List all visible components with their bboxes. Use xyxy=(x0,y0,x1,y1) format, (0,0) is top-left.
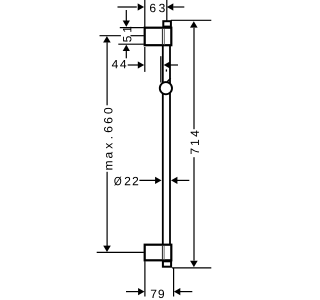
dim 79 left arrow xyxy=(138,288,144,295)
dim max660 line upper xyxy=(106,43,108,106)
wall bar bottom cap xyxy=(163,261,171,266)
dim max660 top reference line right part xyxy=(131,35,144,37)
dim 51 top tail xyxy=(125,10,127,21)
dim 44 right extension (slider edge) xyxy=(160,56,162,82)
dim 63 left tail xyxy=(118,6,137,8)
dim 79 left tail xyxy=(126,291,138,293)
wall bar top cap xyxy=(163,21,171,26)
dim diameter22 right arrow xyxy=(171,177,177,184)
dim 63 right extension line xyxy=(166,0,168,21)
label 714 xyxy=(191,131,199,154)
wall bar top bracket xyxy=(145,28,172,46)
dim diameter22 left arrow xyxy=(155,177,161,184)
dim max660 top arrow xyxy=(103,36,111,42)
dim diameter22 left tail xyxy=(139,179,155,181)
dim 79 right arrow xyxy=(174,288,180,295)
dim 63 left arrow xyxy=(138,3,144,10)
dim max660 top reference line left part xyxy=(100,35,121,37)
rod hidden line in top bracket (right) xyxy=(163,29,165,45)
dim 44 left tail xyxy=(128,64,138,66)
label 63 xyxy=(150,4,165,12)
dim 714 top arrow xyxy=(190,21,198,27)
dim 79 right extension line xyxy=(173,269,175,297)
rod hidden line in top bracket (left) xyxy=(161,29,163,45)
dim 714 line lower xyxy=(193,157,195,260)
rod right edge xyxy=(169,46,171,245)
dim max660 bottom reference line xyxy=(97,251,144,253)
rod hidden line in bottom bracket (left) xyxy=(161,246,163,260)
dim 714 bottom reference line xyxy=(172,267,211,269)
dim 714 top reference line xyxy=(171,19,212,21)
dim 51 bottom tail xyxy=(125,51,127,59)
dim 44 right arrow xyxy=(164,61,170,68)
label max660 xyxy=(104,108,112,170)
rod hidden line in bottom bracket (right) xyxy=(163,246,165,260)
dim max660 bottom arrow xyxy=(103,246,111,252)
wall bar bottom bracket xyxy=(145,245,172,261)
dim 79 right tail xyxy=(180,291,192,293)
dim 63 right arrow xyxy=(167,3,173,10)
dim diameter22 right tail xyxy=(177,179,189,181)
label 44 xyxy=(112,60,126,68)
slider notch xyxy=(167,78,170,82)
dim 51 top extension line xyxy=(120,27,144,29)
rod left edge xyxy=(162,46,164,245)
dim max660 line lower xyxy=(106,172,108,246)
dim 51 top arrow xyxy=(123,21,130,27)
dim 51 bottom arrow xyxy=(123,45,130,51)
dim 44 right tail xyxy=(169,64,178,66)
dim 714 line upper xyxy=(193,28,195,129)
dim 44 left arrow xyxy=(138,61,144,68)
dim 63 left extension line xyxy=(144,0,146,27)
label 51 xyxy=(123,27,131,42)
dim 79 left extension line xyxy=(144,261,146,296)
slider body circle xyxy=(160,82,172,94)
dim 714 bottom arrow xyxy=(190,261,198,267)
dim 44 left extension line xyxy=(144,47,146,72)
dim 51 bottom extension line xyxy=(118,43,144,45)
dim 63 right tail xyxy=(173,6,184,8)
label diameter22 xyxy=(114,177,138,186)
slider centerline mark xyxy=(165,69,167,71)
label 79 xyxy=(151,290,164,298)
